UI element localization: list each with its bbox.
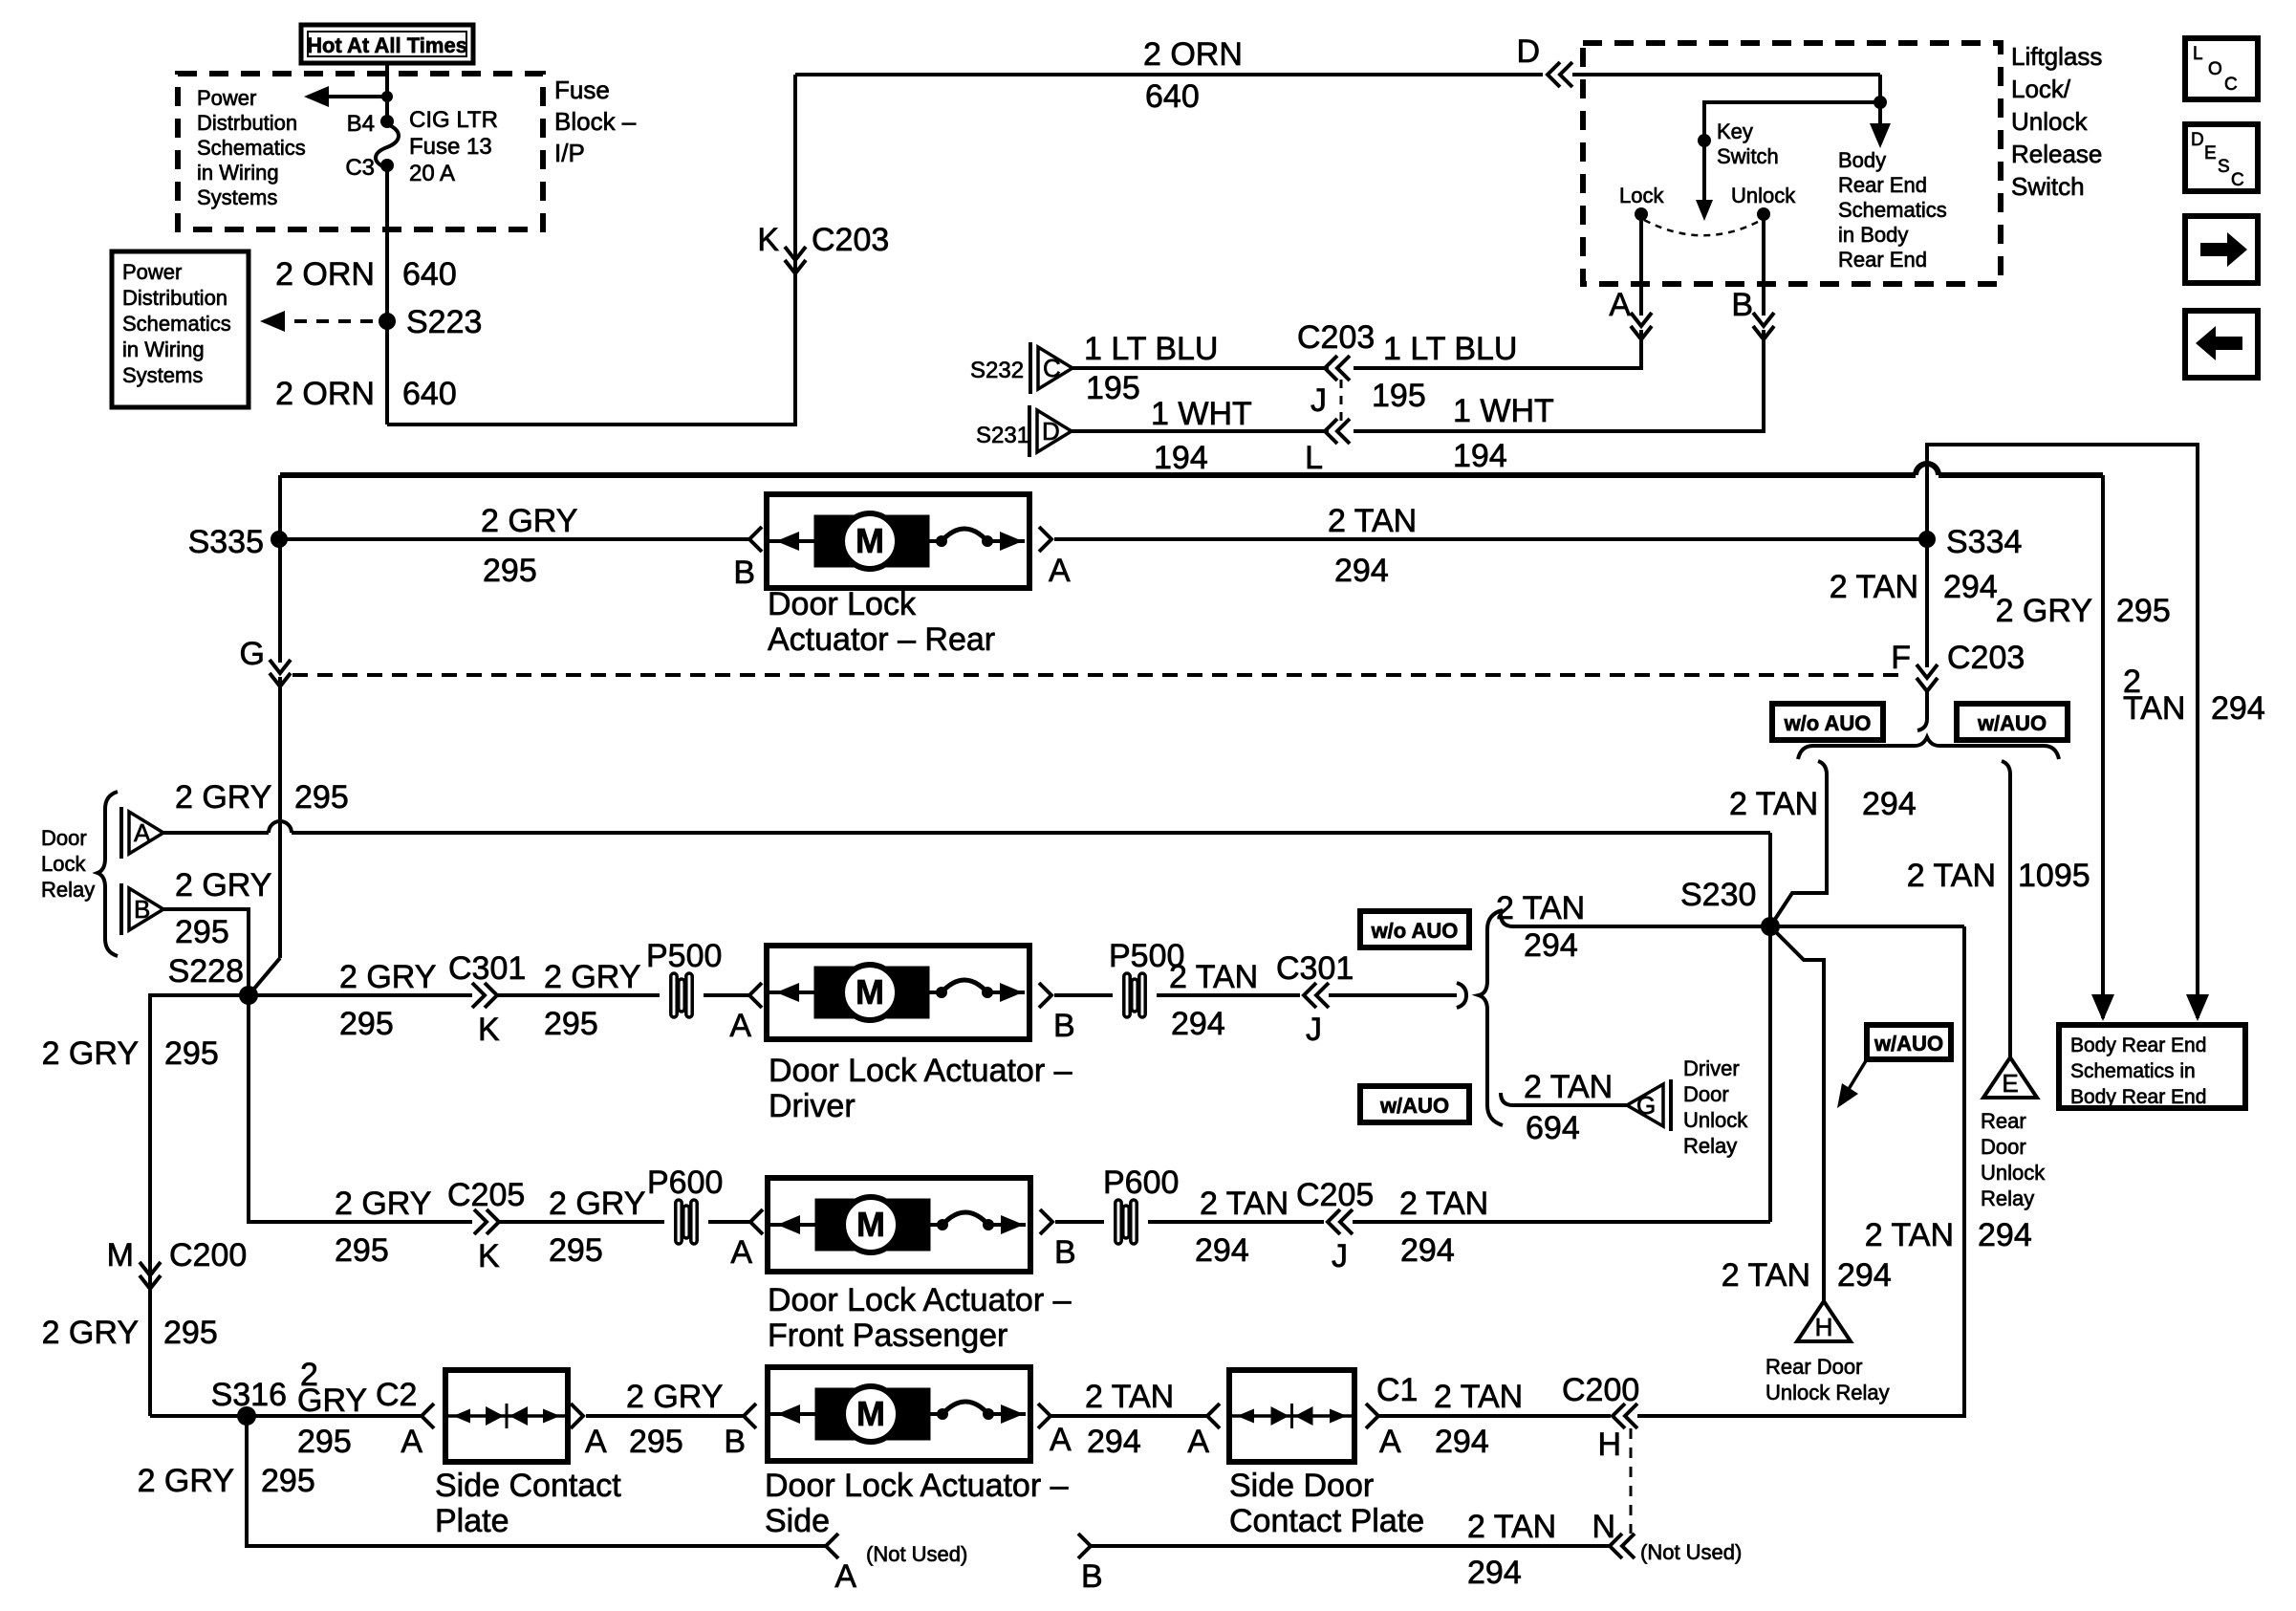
svg-text:S223: S223 bbox=[406, 304, 482, 340]
motor front passenger: door lock actuator box bbox=[768, 1178, 1030, 1272]
svg-text:Schematics in: Schematics in bbox=[2070, 1060, 2196, 1082]
svg-text:Hot At All Times: Hot At All Times bbox=[307, 33, 467, 57]
svg-text:M: M bbox=[856, 1205, 885, 1244]
svg-text:M: M bbox=[856, 972, 884, 1012]
svg-text:2 TAN: 2 TAN bbox=[1085, 1379, 1174, 1415]
svg-text:GRY: GRY bbox=[297, 1382, 367, 1419]
svg-text:Plate: Plate bbox=[435, 1503, 509, 1539]
svg-text:Release: Release bbox=[2011, 140, 2102, 168]
svg-text:Side Contact: Side Contact bbox=[435, 1468, 621, 1504]
svg-text:Unlock Relay: Unlock Relay bbox=[1765, 1381, 1890, 1404]
branch w/o AUO 2 TAN 294 to S230 bbox=[1501, 914, 1513, 926]
svg-text:L: L bbox=[2193, 44, 2203, 64]
svg-text:C: C bbox=[2231, 170, 2244, 190]
svg-text:w/AUO: w/AUO bbox=[1379, 1094, 1449, 1118]
fuse CIG LTR Fuse 13 20A bbox=[376, 124, 399, 168]
svg-text:295: 295 bbox=[483, 553, 537, 589]
svg-text:195: 195 bbox=[1086, 370, 1140, 406]
svg-text:Schematics: Schematics bbox=[122, 312, 231, 336]
svg-text:295: 295 bbox=[549, 1232, 603, 1269]
svg-text:D: D bbox=[1516, 33, 1540, 70]
w/o AUO flag box (driver) bbox=[1360, 911, 1469, 947]
svg-text:294: 294 bbox=[1400, 1232, 1455, 1269]
svg-text:640: 640 bbox=[1145, 78, 1200, 115]
wire to S316 bbox=[150, 1414, 247, 1418]
svg-text:K: K bbox=[757, 222, 779, 258]
svg-text:20 A: 20 A bbox=[409, 161, 455, 186]
svg-text:B: B bbox=[1054, 1234, 1076, 1271]
svg-text:A: A bbox=[1187, 1424, 1209, 1460]
branch w/AUO 2 TAN 694 to G relay bbox=[1501, 1093, 1513, 1105]
pin A driver actuator bbox=[749, 983, 762, 1008]
svg-text:B: B bbox=[724, 1424, 746, 1460]
triangle B door lock relay bbox=[119, 883, 123, 935]
svg-text:A: A bbox=[134, 818, 151, 847]
wire 2 GRY 295 / 2 TAN 294 relay feed with hop bbox=[163, 831, 269, 835]
svg-text:Driver: Driver bbox=[769, 1088, 856, 1124]
pin B wire from Unlock bbox=[1762, 214, 1765, 316]
svg-text:2 TAN: 2 TAN bbox=[1200, 1186, 1289, 1222]
svg-text:2 TAN: 2 TAN bbox=[1729, 786, 1818, 822]
relay brace bbox=[97, 792, 118, 956]
svg-text:Driver: Driver bbox=[1683, 1056, 1740, 1080]
svg-text:2 TAN: 2 TAN bbox=[1524, 1069, 1613, 1105]
svg-text:2 GRY: 2 GRY bbox=[544, 959, 640, 995]
svg-text:294: 294 bbox=[1195, 1232, 1249, 1269]
svg-text:Door Lock Actuator –: Door Lock Actuator – bbox=[768, 1282, 1072, 1318]
svg-text:(Not Used): (Not Used) bbox=[1640, 1540, 1742, 1564]
svg-text:A: A bbox=[401, 1424, 422, 1460]
wire B to S228 bbox=[163, 909, 249, 995]
svg-text:2 GRY: 2 GRY bbox=[335, 1186, 431, 1222]
S230 drop to H relay bbox=[1770, 926, 1824, 1301]
svg-text:2 GRY: 2 GRY bbox=[175, 867, 271, 903]
svg-text:2 ORN: 2 ORN bbox=[275, 376, 375, 412]
svg-text:Front Passenger: Front Passenger bbox=[768, 1317, 1007, 1354]
svg-text:694: 694 bbox=[1526, 1110, 1580, 1146]
svg-text:295: 295 bbox=[294, 779, 349, 816]
driver circuit split brace bbox=[1457, 983, 1466, 1008]
svg-text:295: 295 bbox=[261, 1463, 315, 1499]
svg-text:I/P: I/P bbox=[554, 139, 585, 167]
svg-text:294: 294 bbox=[1978, 1217, 2032, 1253]
svg-text:295: 295 bbox=[297, 1424, 352, 1460]
svg-text:294: 294 bbox=[1087, 1424, 1141, 1460]
svg-text:Relay: Relay bbox=[1981, 1186, 2034, 1210]
svg-text:Door: Door bbox=[41, 826, 87, 850]
svg-text:P600: P600 bbox=[647, 1165, 723, 1201]
svg-text:Body Rear End: Body Rear End bbox=[2070, 1034, 2206, 1056]
svg-text:J: J bbox=[1310, 382, 1327, 419]
dashed arrow to power distribution box bbox=[272, 319, 377, 323]
svg-text:S231: S231 bbox=[976, 423, 1029, 448]
svg-text:295: 295 bbox=[2116, 593, 2171, 629]
svg-text:Lock: Lock bbox=[41, 852, 86, 876]
svg-text:Rear Door: Rear Door bbox=[1765, 1355, 1862, 1379]
svg-text:B: B bbox=[134, 895, 150, 924]
node B4 bbox=[380, 115, 394, 128]
svg-text:Distribution: Distribution bbox=[122, 286, 227, 310]
pin A front passenger actuator bbox=[750, 1209, 763, 1234]
svg-text:D: D bbox=[1042, 417, 1060, 446]
svg-text:O: O bbox=[2208, 59, 2222, 79]
liftglass lock/unlock release switch dashed box bbox=[1583, 43, 2001, 284]
svg-text:B: B bbox=[733, 555, 755, 591]
svg-text:G: G bbox=[240, 636, 265, 672]
svg-text:295: 295 bbox=[163, 1315, 218, 1351]
splice S335 bbox=[271, 531, 288, 548]
S316 drop to bottom not-used run bbox=[247, 1416, 828, 1546]
svg-text:A: A bbox=[1049, 553, 1071, 589]
motor rear: door lock actuator box bbox=[767, 494, 1029, 588]
svg-text:295: 295 bbox=[164, 1035, 219, 1072]
svg-text:A: A bbox=[1379, 1424, 1401, 1460]
svg-text:S334: S334 bbox=[1946, 524, 2022, 560]
wire 2 TAN 294 bottom run bbox=[1091, 1544, 1610, 1548]
svg-text:640: 640 bbox=[402, 376, 457, 412]
arrow to power distribution schematics bbox=[308, 95, 387, 98]
svg-text:Power: Power bbox=[122, 260, 182, 284]
S228 drop to front passenger row bbox=[249, 995, 472, 1222]
svg-text:Rear End: Rear End bbox=[1838, 173, 1927, 197]
svg-text:Actuator – Rear: Actuator – Rear bbox=[768, 621, 995, 658]
left drop to splice S335 bbox=[278, 475, 282, 539]
svg-text:Block –: Block – bbox=[554, 107, 637, 136]
svg-text:Liftglass: Liftglass bbox=[2011, 42, 2102, 71]
svg-text:2 GRY: 2 GRY bbox=[549, 1186, 645, 1222]
contact plate side door contact plate bbox=[1229, 1370, 1354, 1462]
svg-text:C301: C301 bbox=[448, 950, 526, 987]
wire from fuse C3 down bbox=[385, 165, 389, 425]
pin A not used bbox=[826, 1534, 838, 1558]
svg-text:S228: S228 bbox=[168, 953, 244, 990]
svg-text:Key: Key bbox=[1717, 120, 1753, 143]
w/AUO flag box (driver) bbox=[1360, 1086, 1469, 1122]
svg-text:(Not Used): (Not Used) bbox=[866, 1542, 967, 1566]
svg-text:C200: C200 bbox=[169, 1237, 247, 1274]
splice S334 bbox=[1918, 531, 1936, 548]
wire 2 GRY 295 to rear actuator bbox=[279, 537, 751, 541]
wire 1 WHT 194 (left) bbox=[1072, 429, 1329, 433]
svg-text:B: B bbox=[1081, 1558, 1103, 1595]
wire 2 GRY 295 to side contact plate C2 bbox=[247, 1414, 423, 1418]
w/AUO flag box (at S230 drop) bbox=[1867, 1025, 1951, 1059]
svg-text:2 ORN: 2 ORN bbox=[1143, 36, 1243, 73]
pin A wire from Lock bbox=[1639, 214, 1643, 316]
svg-text:H: H bbox=[1815, 1313, 1833, 1341]
svg-text:Door Lock Actuator –: Door Lock Actuator – bbox=[769, 1053, 1072, 1089]
pin A rear actuator bbox=[1039, 527, 1051, 552]
svg-text:2 GRY: 2 GRY bbox=[42, 1035, 139, 1072]
svg-text:Unlock: Unlock bbox=[2011, 107, 2088, 136]
svg-text:Door: Door bbox=[1683, 1082, 1729, 1106]
contact plate side contact plate bbox=[445, 1370, 568, 1462]
w/AUO flag box (at F) bbox=[1957, 704, 2068, 740]
svg-text:Fuse 13: Fuse 13 bbox=[409, 134, 492, 160]
switch wiper dashed arc bbox=[1644, 220, 1760, 235]
Hot At All Times box bbox=[301, 25, 473, 63]
svg-text:C301: C301 bbox=[1276, 950, 1354, 987]
svg-text:C203: C203 bbox=[1297, 319, 1375, 356]
svg-text:Body Rear End: Body Rear End bbox=[2070, 1086, 2206, 1108]
svg-text:2 TAN: 2 TAN bbox=[1399, 1186, 1488, 1222]
svg-text:C203: C203 bbox=[812, 222, 889, 258]
svg-text:Schematics: Schematics bbox=[197, 136, 306, 160]
wire 2 TAN 294 to S334 bbox=[1054, 537, 1927, 541]
svg-text:A: A bbox=[834, 1558, 856, 1595]
svg-text:M: M bbox=[107, 1237, 134, 1274]
arrow to body rear end schematics (internal) bbox=[1870, 123, 1891, 148]
svg-text:J: J bbox=[1332, 1238, 1348, 1274]
svg-text:2 TAN: 2 TAN bbox=[1907, 858, 1996, 894]
svg-text:TAN: TAN bbox=[2123, 690, 2185, 727]
key switch contact bbox=[1698, 134, 1711, 147]
svg-text:C: C bbox=[2224, 75, 2238, 95]
DESC nav box bbox=[2185, 124, 2258, 191]
S334 riser up and over to right 2 TAN 294 drop bbox=[1927, 445, 2198, 1018]
svg-text:294: 294 bbox=[1334, 553, 1389, 589]
svg-text:w/AUO: w/AUO bbox=[1977, 711, 2047, 735]
svg-text:1 WHT: 1 WHT bbox=[1151, 396, 1252, 432]
svg-text:Switch: Switch bbox=[2011, 172, 2085, 201]
F split stub and brace bbox=[1917, 690, 1927, 730]
riser to S230 bbox=[1768, 926, 1772, 1222]
splice S228 bbox=[239, 986, 258, 1005]
wire 2 GRY 295 S228 to C301 bbox=[249, 993, 472, 997]
svg-text:S: S bbox=[2218, 157, 2230, 177]
wire left from S228 and down bbox=[150, 995, 249, 1416]
branch wire to E relay (w/AUO) bbox=[2002, 761, 2010, 774]
svg-text:K: K bbox=[478, 1238, 500, 1274]
svg-text:S232: S232 bbox=[970, 358, 1024, 383]
splice S316 bbox=[237, 1406, 256, 1426]
svg-text:Side Door: Side Door bbox=[1229, 1468, 1374, 1504]
LOC nav box bbox=[2185, 38, 2258, 99]
w/o AUO flag box (at F) bbox=[1772, 704, 1883, 740]
svg-text:w/o AUO: w/o AUO bbox=[1371, 919, 1459, 943]
svg-text:195: 195 bbox=[1372, 378, 1426, 414]
pin B front passenger actuator bbox=[1040, 1209, 1052, 1234]
diagonal from S335 drop into S228 bbox=[249, 958, 280, 995]
right 2 GRY 295 drop from main top wire bbox=[2101, 475, 2105, 1018]
svg-text:in Wiring: in Wiring bbox=[197, 161, 279, 185]
svg-text:194: 194 bbox=[1154, 440, 1208, 476]
svg-text:294: 294 bbox=[1435, 1424, 1489, 1460]
right arrow nav box bbox=[2185, 216, 2258, 283]
pin A side door contact plate bbox=[1207, 1404, 1220, 1428]
triangle A door lock relay bbox=[119, 807, 123, 859]
svg-text:Unlock: Unlock bbox=[1981, 1161, 2046, 1185]
svg-text:294: 294 bbox=[1837, 1257, 1892, 1294]
svg-text:A: A bbox=[729, 1008, 751, 1044]
motor driver: door lock actuator box bbox=[767, 946, 1029, 1039]
svg-text:Side: Side bbox=[765, 1503, 830, 1539]
svg-text:Rear End: Rear End bbox=[1838, 248, 1927, 272]
svg-text:A: A bbox=[585, 1424, 607, 1460]
svg-text:2 TAN: 2 TAN bbox=[1865, 1217, 1954, 1253]
svg-text:1 WHT: 1 WHT bbox=[1453, 393, 1554, 429]
node C3 bbox=[380, 159, 394, 172]
svg-text:S335: S335 bbox=[188, 524, 264, 560]
svg-text:S316: S316 bbox=[211, 1377, 287, 1413]
wire from Hot At All Times down into fuse block bbox=[385, 63, 389, 121]
svg-text:B: B bbox=[1053, 1008, 1075, 1044]
svg-text:in Body: in Body bbox=[1838, 223, 1908, 247]
svg-text:2 GRY: 2 GRY bbox=[1996, 593, 2092, 629]
svg-text:295: 295 bbox=[335, 1232, 389, 1269]
svg-text:1095: 1095 bbox=[2018, 858, 2090, 894]
svg-text:E: E bbox=[2204, 143, 2217, 163]
svg-text:Lock/: Lock/ bbox=[2011, 75, 2071, 103]
svg-text:S230: S230 bbox=[1680, 877, 1756, 913]
svg-text:Switch: Switch bbox=[1717, 144, 1779, 168]
svg-text:B4: B4 bbox=[347, 111, 375, 137]
svg-text:in Wiring: in Wiring bbox=[122, 337, 205, 361]
svg-text:Door: Door bbox=[1981, 1135, 2026, 1159]
svg-text:2 ORN: 2 ORN bbox=[275, 256, 375, 293]
svg-text:w/o AUO: w/o AUO bbox=[1784, 711, 1872, 735]
wire bottom run to K C203 riser bbox=[387, 75, 795, 425]
svg-text:2 TAN: 2 TAN bbox=[1722, 1257, 1810, 1294]
left arrow nav box bbox=[2185, 311, 2258, 378]
svg-text:2 GRY: 2 GRY bbox=[481, 503, 577, 539]
svg-text:1 LT BLU: 1 LT BLU bbox=[1084, 331, 1218, 367]
svg-text:Distrbution: Distrbution bbox=[197, 111, 297, 135]
splice S230 bbox=[1761, 917, 1780, 936]
pin B side actuator bbox=[744, 1404, 756, 1428]
pin A side actuator right bbox=[1038, 1404, 1051, 1428]
svg-text:2 TAN: 2 TAN bbox=[1169, 959, 1258, 995]
connector C203 L bbox=[1325, 419, 1337, 444]
svg-text:K: K bbox=[478, 1012, 500, 1048]
triangle H rear door unlock relay bbox=[1797, 1301, 1851, 1341]
dashed tie C200 H to N bbox=[1630, 1428, 1633, 1534]
splice S223 bbox=[379, 313, 396, 330]
svg-text:Body: Body bbox=[1838, 148, 1886, 172]
svg-text:1 LT BLU: 1 LT BLU bbox=[1383, 331, 1517, 367]
wire 1 LT BLU 195 (left) bbox=[1072, 366, 1329, 370]
svg-text:C205: C205 bbox=[1296, 1177, 1374, 1213]
svg-text:Unlock: Unlock bbox=[1731, 184, 1796, 207]
svg-text:Systems: Systems bbox=[197, 185, 277, 209]
svg-text:2 TAN: 2 TAN bbox=[1328, 503, 1417, 539]
svg-text:2 TAN: 2 TAN bbox=[1467, 1509, 1556, 1545]
svg-text:Door Lock: Door Lock bbox=[768, 586, 917, 622]
fuse block dashed box: Fuse Block - I/P bbox=[178, 74, 543, 229]
dashed connector tie J-L bbox=[1340, 380, 1343, 421]
svg-text:Lock: Lock bbox=[1619, 184, 1664, 207]
svg-text:295: 295 bbox=[175, 914, 229, 950]
svg-text:M: M bbox=[856, 1394, 885, 1433]
svg-text:Rear: Rear bbox=[1981, 1109, 2026, 1133]
svg-text:G: G bbox=[1636, 1091, 1656, 1120]
svg-text:294: 294 bbox=[2211, 690, 2265, 727]
switch feed wire down to junction bbox=[1878, 75, 1882, 143]
svg-text:Relay: Relay bbox=[1683, 1134, 1737, 1158]
svg-text:w/AUO: w/AUO bbox=[1874, 1032, 1943, 1056]
svg-text:Relay: Relay bbox=[41, 878, 95, 902]
triangle E rear door unlock relay bbox=[1983, 1057, 2037, 1098]
svg-text:J: J bbox=[1306, 1012, 1322, 1048]
svg-text:294: 294 bbox=[1862, 786, 1917, 822]
svg-text:C2: C2 bbox=[376, 1377, 417, 1413]
svg-text:Fuse: Fuse bbox=[554, 76, 610, 104]
svg-text:640: 640 bbox=[402, 256, 457, 293]
svg-text:Schematics: Schematics bbox=[1838, 198, 1947, 222]
svg-text:194: 194 bbox=[1453, 438, 1507, 474]
svg-text:D: D bbox=[2191, 130, 2204, 150]
svg-text:2 GRY: 2 GRY bbox=[42, 1315, 139, 1351]
svg-text:Power: Power bbox=[197, 86, 256, 110]
main top wire (thick) with hop over S334 riser bbox=[280, 472, 1916, 478]
svg-text:C1: C1 bbox=[1376, 1372, 1418, 1408]
svg-text:Unlock: Unlock bbox=[1683, 1108, 1748, 1132]
svg-text:C203: C203 bbox=[1947, 640, 2025, 676]
svg-text:Door Lock Actuator –: Door Lock Actuator – bbox=[765, 1468, 1069, 1504]
pin B driver actuator bbox=[1039, 983, 1051, 1008]
power distribution schematics box (solid) bbox=[112, 251, 249, 407]
arrows into body rear end schematics box bbox=[2091, 994, 2114, 1021]
svg-text:M: M bbox=[856, 521, 884, 560]
svg-text:2 TAN: 2 TAN bbox=[1830, 569, 1918, 605]
svg-text:2 GRY: 2 GRY bbox=[138, 1463, 234, 1499]
svg-text:L: L bbox=[1305, 440, 1323, 476]
svg-text:A: A bbox=[1609, 287, 1631, 323]
svg-text:F: F bbox=[1891, 640, 1911, 676]
svg-text:B: B bbox=[1731, 287, 1753, 323]
svg-text:C: C bbox=[1043, 354, 1061, 382]
wire right of S230 down to C200 run bbox=[1637, 926, 1964, 1416]
svg-text:C205: C205 bbox=[447, 1177, 525, 1213]
svg-text:295: 295 bbox=[629, 1424, 683, 1460]
svg-text:CIG LTR: CIG LTR bbox=[409, 107, 498, 133]
svg-text:C3: C3 bbox=[345, 155, 375, 181]
pin A side contact plate right bbox=[571, 1404, 583, 1428]
svg-text:P600: P600 bbox=[1103, 1165, 1179, 1201]
svg-text:2 TAN: 2 TAN bbox=[1496, 890, 1585, 926]
S334 drop 2 TAN 294 to F C203 bbox=[1925, 539, 1929, 667]
svg-text:2 TAN: 2 TAN bbox=[1434, 1379, 1523, 1415]
svg-text:294: 294 bbox=[1524, 927, 1578, 964]
svg-text:H: H bbox=[1597, 1426, 1621, 1463]
svg-text:295: 295 bbox=[544, 1006, 598, 1042]
svg-text:E: E bbox=[2002, 1069, 2018, 1098]
box: Body Rear End Schematics in Body Rear End bbox=[2059, 1025, 2245, 1108]
svg-text:294: 294 bbox=[1171, 1006, 1225, 1042]
motor side: door lock actuator box bbox=[768, 1367, 1030, 1461]
svg-text:2 GRY: 2 GRY bbox=[626, 1379, 723, 1415]
svg-text:Systems: Systems bbox=[122, 363, 203, 387]
long dashed crossover wire G to F bbox=[292, 673, 1906, 677]
wire 2 ORN 640 top run bbox=[795, 73, 1543, 76]
svg-text:294: 294 bbox=[1467, 1555, 1522, 1591]
svg-text:2 GRY: 2 GRY bbox=[175, 779, 271, 816]
svg-text:A: A bbox=[1050, 1422, 1072, 1458]
svg-text:294: 294 bbox=[1943, 569, 1998, 605]
triangle G driver door unlock relay bbox=[1669, 1079, 1673, 1131]
svg-text:2 GRY: 2 GRY bbox=[339, 959, 436, 995]
svg-text:A: A bbox=[730, 1234, 752, 1271]
svg-text:N: N bbox=[1592, 1509, 1615, 1545]
wire to key switch bbox=[1704, 102, 1880, 216]
svg-text:Contact Plate: Contact Plate bbox=[1229, 1503, 1424, 1539]
svg-text:295: 295 bbox=[339, 1006, 394, 1042]
branch wire to S230 (w/o AUO) bbox=[1818, 761, 1827, 774]
svg-text:C200: C200 bbox=[1562, 1372, 1639, 1408]
svg-text:P500: P500 bbox=[646, 938, 722, 974]
pin B not used bbox=[1078, 1534, 1091, 1558]
